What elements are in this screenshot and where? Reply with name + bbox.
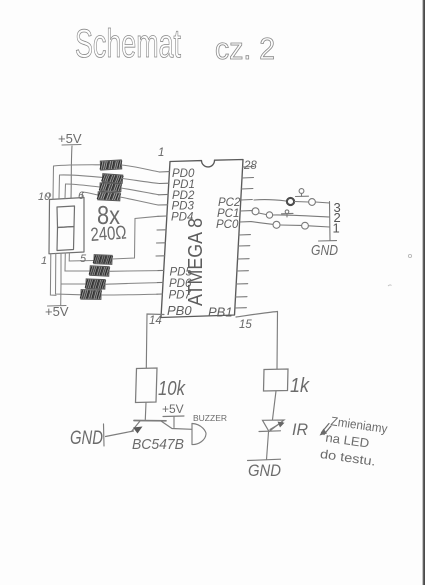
svg-text:10k: 10k [158,378,186,400]
svg-text:GND: GND [311,242,338,259]
svg-text:1: 1 [41,255,47,267]
svg-text:14: 14 [149,315,162,327]
svg-text:+5V: +5V [162,402,184,416]
svg-text:BUZZER: BUZZER [193,413,227,423]
svg-text:6: 6 [78,190,85,202]
svg-text:Schemat: Schemat [75,22,181,66]
svg-text:15: 15 [239,319,252,331]
svg-text:cz. 2: cz. 2 [215,31,275,66]
svg-text:28: 28 [243,160,257,172]
svg-text:GND: GND [248,461,281,480]
svg-text:240Ω: 240Ω [90,223,127,246]
svg-text:1: 1 [158,147,164,159]
svg-text:+5V: +5V [45,304,69,319]
svg-text:1k: 1k [290,375,310,397]
svg-text:BC547B: BC547B [132,437,184,453]
svg-text:1: 1 [333,221,340,236]
svg-text:+5V: +5V [58,131,82,146]
svg-text:GND: GND [70,428,103,449]
svg-text:IR: IR [292,420,308,439]
svg-text:5: 5 [80,253,87,265]
svg-text:PB1: PB1 [208,305,233,320]
svg-text:ATMEGA 8: ATMEGA 8 [185,218,207,306]
svg-text:PC0: PC0 [216,219,239,231]
